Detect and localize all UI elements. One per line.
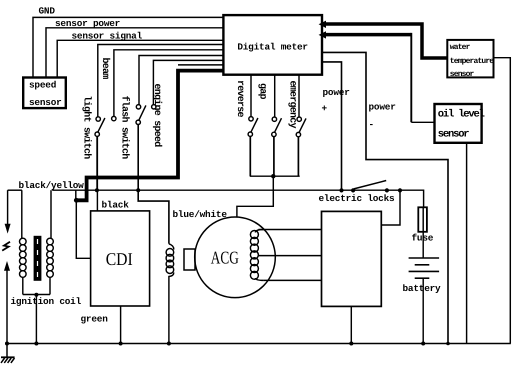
svg-text:black: black	[102, 200, 130, 211]
arrowhead into meter	[319, 31, 326, 38]
junction dot bus	[271, 174, 275, 178]
wire coil to ground rail	[35, 295, 37, 344]
wire oil level sensor down	[466, 143, 468, 344]
ground symbol	[1, 344, 15, 363]
switch common bus	[250, 175, 300, 177]
junction dot coil bottom	[34, 293, 38, 297]
svg-text:fuse: fuse	[412, 233, 434, 244]
thick wire meter to water temp sensor	[322, 24, 447, 58]
regulator box	[322, 211, 382, 306]
ACG wires to regulator	[258, 229, 321, 231]
svg-text:Digital meter: Digital meter	[237, 41, 308, 52]
svg-text:ignition coil: ignition coil	[11, 296, 82, 307]
battery B1	[409, 258, 440, 278]
arrow up	[4, 261, 10, 271]
spark plug wire	[8, 189, 22, 191]
wire regulator to electric locks	[381, 190, 400, 225]
svg-text:water: water	[450, 43, 471, 52]
wire water temp sensor to right rail	[494, 58, 511, 344]
ACG winding	[250, 230, 264, 281]
svg-text:blue/white: blue/white	[173, 209, 228, 220]
ignition coil T1	[20, 190, 54, 294]
ground rail	[5, 343, 511, 345]
water temperature sensor box	[447, 40, 493, 78]
contact circle	[152, 105, 156, 109]
svg-text:CDI: CDI	[106, 249, 133, 269]
CDI box	[91, 211, 150, 306]
long common wire at y190	[52, 190, 423, 207]
svg-text:+: +	[322, 103, 328, 114]
wire bus to ACG	[237, 176, 273, 217]
svg-text:electric locks: electric locks	[319, 193, 396, 204]
ACG terminal block	[184, 249, 195, 270]
svg-text:sensor: sensor	[450, 70, 475, 79]
wire sensor signal	[57, 40, 223, 78]
core	[34, 236, 42, 281]
gap switch S4	[272, 117, 282, 176]
svg-text:oil level: oil level	[438, 109, 485, 121]
svg-text:black/yellow: black/yellow	[19, 180, 85, 191]
oil level sensor box	[435, 104, 482, 143]
svg-text:battery: battery	[403, 283, 442, 294]
wire engine speed drop	[139, 56, 224, 105]
thick wire meter to oil level sensor	[322, 33, 411, 37]
wire power plus	[322, 62, 342, 191]
svg-text:flash switch: flash switch	[118, 96, 130, 160]
ACG circle	[195, 217, 276, 298]
svg-text:power: power	[369, 102, 396, 113]
junction dots on ground rail	[5, 342, 9, 346]
svg-text:sensor: sensor	[29, 97, 62, 108]
light switch S1	[95, 117, 105, 191]
wire 4th contact drop	[153, 60, 223, 104]
wire beam / light switch drop	[98, 45, 224, 117]
right winding	[50, 190, 52, 238]
svg-text:ACG: ACG	[211, 248, 239, 268]
flash switch contact	[112, 116, 116, 120]
wire power minus	[322, 52, 448, 343]
emergency switch S5	[296, 117, 306, 176]
svg-text:GND: GND	[39, 6, 56, 17]
left winding	[21, 190, 23, 238]
arrowhead into meter	[319, 21, 326, 28]
wire flash switch drop	[114, 50, 224, 117]
digital meter U1	[223, 15, 322, 75]
wire GND from speed sensor to meter	[33, 17, 224, 78]
wire emergency drop	[298, 75, 300, 117]
thick wire black/yellow from meter	[76, 71, 223, 201]
wire gap drop	[274, 75, 276, 117]
wire branch down to black/yellow junction	[75, 190, 77, 200]
lightning spark	[2, 242, 10, 251]
svg-text:reverse: reverse	[234, 80, 245, 118]
inductor on blue/white wire	[166, 244, 174, 344]
fuse F1	[418, 207, 427, 232]
wire CDI green to ground	[120, 306, 122, 344]
wire light switch to CDI	[96, 190, 98, 211]
svg-text:emergency: emergency	[286, 81, 297, 129]
wire sensor power	[46, 28, 224, 78]
svg-text:light switch: light switch	[80, 96, 92, 160]
junction dot black/yellow	[74, 198, 79, 203]
svg-text:beam: beam	[99, 58, 111, 80]
wire battery to ground	[422, 278, 424, 343]
junction dots on common wire	[95, 188, 99, 192]
electric locks switch	[339, 181, 402, 193]
svg-text:speed: speed	[29, 80, 56, 91]
svg-text:temperature: temperature	[450, 57, 495, 66]
svg-text:gap: gap	[256, 83, 267, 100]
bottom connect	[23, 294, 50, 296]
wire regulator to ground	[350, 306, 352, 343]
speed sensor box	[23, 78, 66, 109]
wire junction to CDI left	[76, 200, 90, 258]
engine speed switch S2	[136, 105, 169, 244]
reverse switch S3	[248, 117, 258, 177]
svg-text:sensor: sensor	[438, 129, 470, 141]
wire reverse drop	[250, 75, 252, 117]
wire stub meter to thick wire	[178, 64, 224, 66]
svg-text:power: power	[323, 87, 350, 98]
svg-text:-: -	[369, 119, 374, 130]
svg-text:green: green	[81, 314, 109, 325]
arrow down	[5, 224, 11, 234]
